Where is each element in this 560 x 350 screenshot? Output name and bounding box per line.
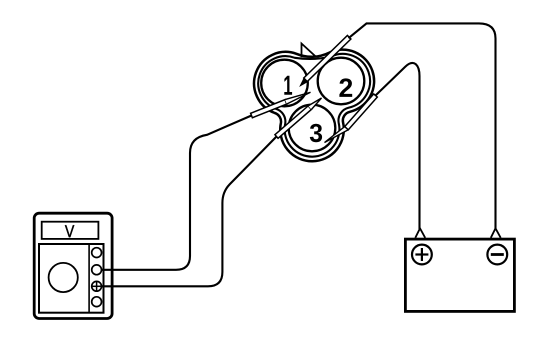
- clamp at battery negative: [491, 228, 501, 238]
- battery negative terminal: [487, 245, 507, 265]
- battery positive terminal: [412, 245, 432, 265]
- wire from probe N4 to battery positive: [376, 63, 420, 229]
- connector shell outer outline: [254, 50, 374, 162]
- voltmeter jack 2: [92, 265, 102, 275]
- connector shell inner outline: [258, 54, 370, 157]
- pin 3 label: [310, 124, 322, 143]
- probe N3 rod (from voltmeter jack3): [275, 98, 322, 138]
- voltmeter dial: [49, 263, 78, 292]
- voltmeter V label: [65, 225, 74, 237]
- probe N4 rod into pin 3 (from battery positive): [325, 94, 378, 143]
- probe N2 rod (from voltmeter jack2): [251, 92, 311, 117]
- voltmeter jack 1: [92, 248, 102, 258]
- battery case: [405, 239, 514, 311]
- voltmeter body: [34, 213, 112, 318]
- wire from probe N1 to battery negative: [349, 23, 496, 229]
- pin 3 cavity circle: [289, 105, 336, 152]
- clamp at battery positive: [415, 228, 425, 238]
- voltmeter jack 4: [92, 297, 102, 307]
- pin 2 label: [339, 78, 352, 97]
- pin 2 cavity circle: [318, 58, 365, 105]
- voltmeter jack strip divider: [88, 244, 90, 313]
- wire W1 voltmeter jack2 to probe N2: [102, 116, 252, 270]
- pin 1 label: [284, 76, 292, 95]
- voltmeter jack 3: [92, 281, 102, 291]
- voltmeter display window: [42, 222, 99, 239]
- voltmeter front panel: [39, 244, 104, 313]
- probe N1 rod into pin 1 (from battery negative): [300, 35, 351, 85]
- connector key tab: [302, 44, 316, 57]
- pin 1 cavity circle: [261, 60, 308, 107]
- wire W2 voltmeter jack3 to probe N3: [102, 137, 277, 287]
